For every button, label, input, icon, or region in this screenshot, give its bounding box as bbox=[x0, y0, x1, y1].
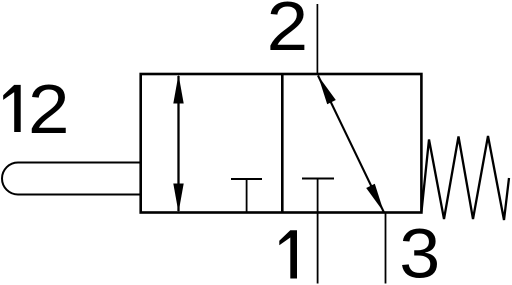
port 2 line bbox=[316, 4, 318, 74]
svg-text:2: 2 bbox=[28, 70, 70, 148]
diagonal arrow upper head bbox=[318, 76, 336, 105]
blocked port T (left position) bar bbox=[231, 178, 262, 180]
svg-text:3: 3 bbox=[399, 215, 440, 285]
svg-text:2: 2 bbox=[267, 0, 309, 65]
flow path double arrow lower head bbox=[173, 184, 183, 213]
flow path double arrow (left position) shaft bbox=[177, 76, 179, 211]
position divider wall bbox=[281, 74, 284, 213]
label 12 digit 1 (pilot/actuation) bbox=[3, 85, 21, 132]
port 1 blocked seat bar bbox=[302, 177, 334, 179]
diagonal arrow lower head bbox=[366, 184, 384, 213]
flow path double arrow upper head bbox=[173, 75, 183, 104]
port 3 line bbox=[385, 213, 387, 284]
exhaust flow diagonal arrow shaft (right position) bbox=[318, 76, 384, 213]
label 1 (port 1) bbox=[279, 230, 297, 278]
manual plunger actuator bbox=[2, 163, 141, 195]
blocked port T (left position) stem bbox=[246, 179, 248, 213]
valve body outline V1 bbox=[141, 74, 422, 213]
port 1 line bbox=[317, 179, 319, 284]
return spring bbox=[421, 136, 509, 220]
